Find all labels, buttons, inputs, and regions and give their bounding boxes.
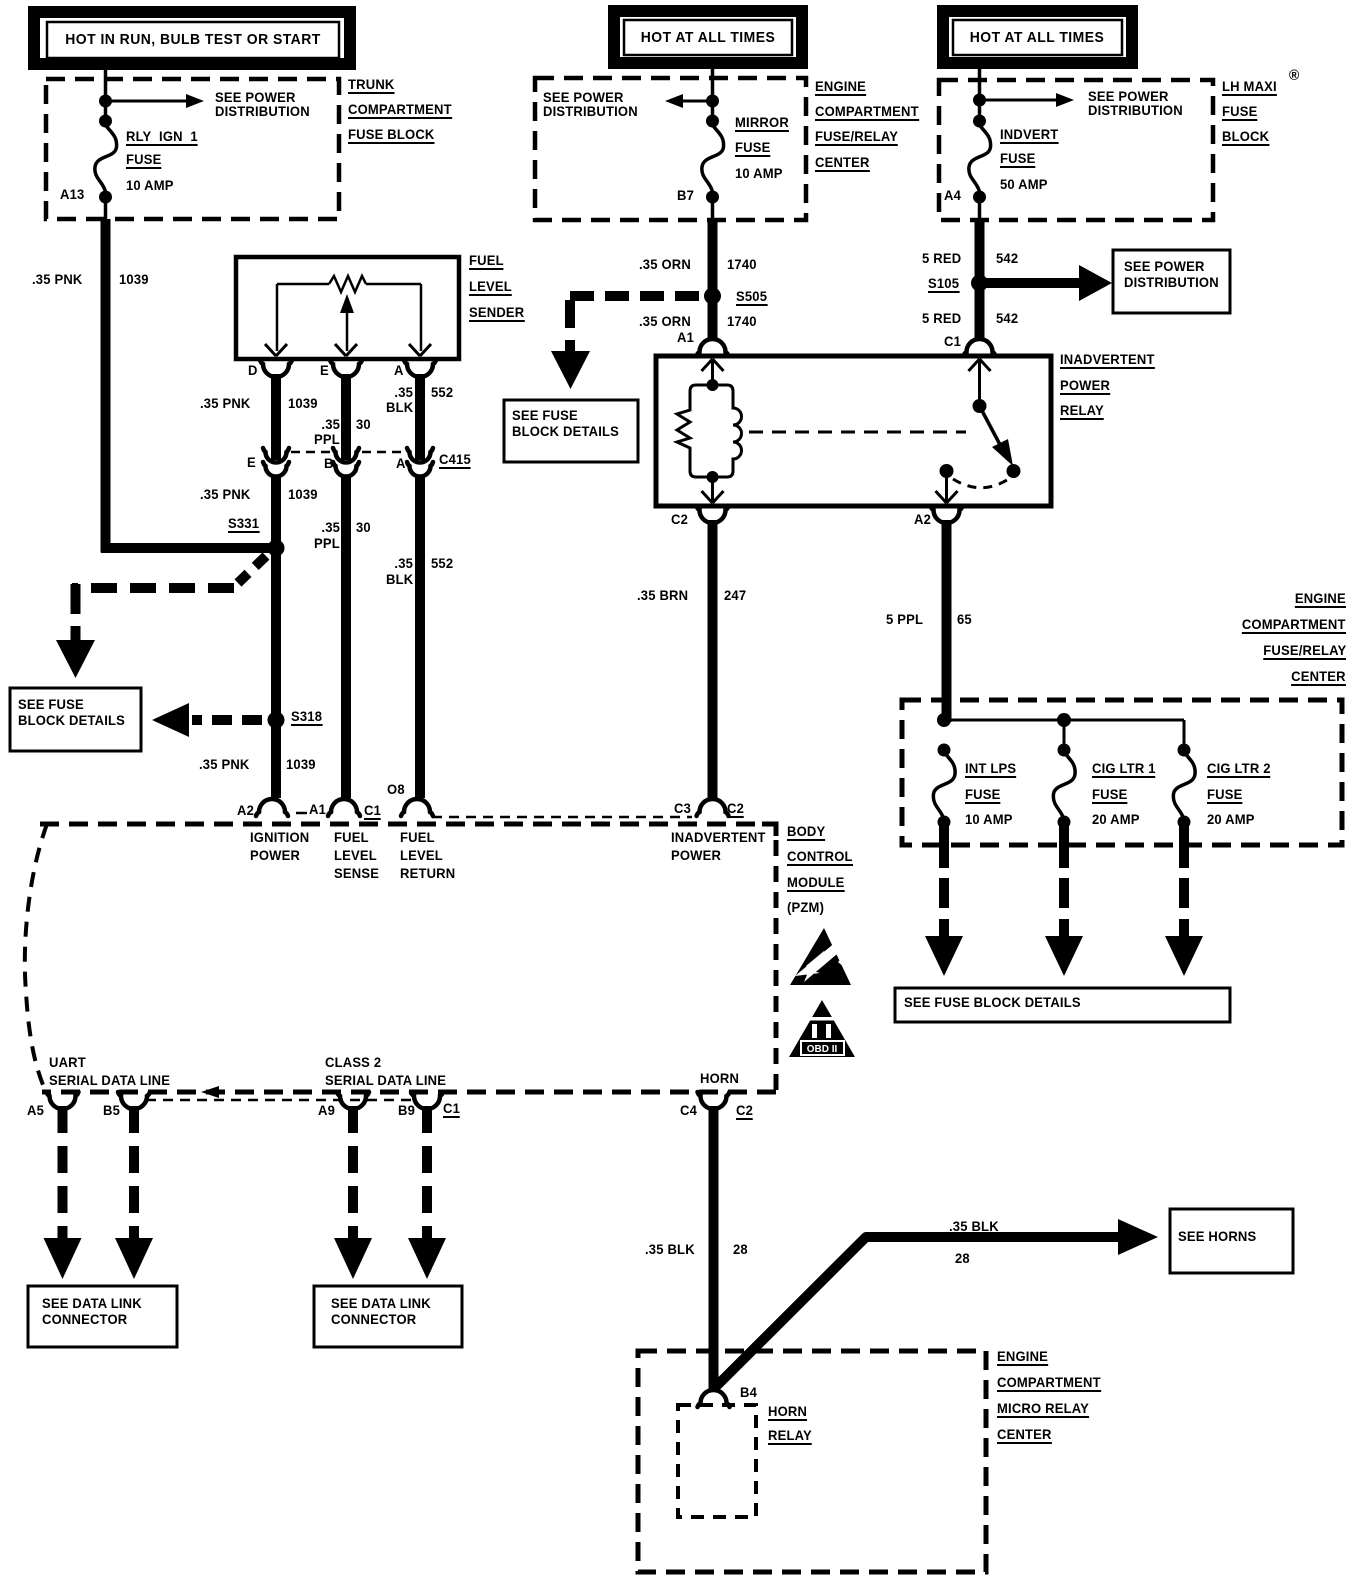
label .35 (blk upper) xyxy=(394,385,413,400)
relay coil feed wire xyxy=(711,359,714,385)
splice dot S318 xyxy=(268,712,285,729)
dashed wire from S318 to arrow xyxy=(192,715,262,725)
label RELAY (relay) xyxy=(1060,403,1104,420)
label UART xyxy=(49,1055,86,1070)
label BLK (blk upper) xyxy=(386,400,413,415)
label FUSE/RELAY (fusectr) xyxy=(1263,643,1346,660)
junction dot at see-power tap xyxy=(99,95,112,108)
box SEE HORNS xyxy=(1170,1209,1293,1273)
label .35 PNK (A13) xyxy=(32,272,83,287)
label DISTRIBUTION (right) xyxy=(1088,103,1183,118)
label 10 AMP (rly ign) xyxy=(126,178,174,193)
relay coil bottom junction dot xyxy=(707,471,719,483)
junction dot above fuse RLY IGN 1 xyxy=(99,115,112,128)
label 1039 (seg3) xyxy=(288,487,318,502)
wire B7 stub to box edge xyxy=(711,197,715,220)
label INADVERTENT (BCM) xyxy=(671,830,766,845)
label HORN (BCM) xyxy=(700,1071,739,1086)
BCM dashed border right edge xyxy=(774,840,779,1092)
wire feed from header to mirror fuse xyxy=(711,69,715,126)
label SEE POWER (left) xyxy=(215,90,296,105)
splice dot S331 xyxy=(268,540,285,557)
label LEVEL (sender) xyxy=(469,279,512,296)
label 20 AMP (cig2) xyxy=(1207,812,1255,827)
pin label A1 (relay) xyxy=(677,330,694,345)
label 5 PPL xyxy=(886,612,923,627)
label CENTER (mid) xyxy=(815,155,870,172)
label COMPARTMENT xyxy=(348,102,452,119)
dashed wire from S331 to fuse block details xyxy=(72,556,266,642)
label .35 BLK (vert) xyxy=(645,1242,695,1257)
BCM thin dash left of A1 xyxy=(296,812,307,815)
label .35 ORN (upper) xyxy=(639,257,691,272)
pin label A2 (BCM) xyxy=(237,803,254,818)
label FUSE (cig1) xyxy=(1092,787,1127,804)
relay switch output dot xyxy=(940,464,954,478)
label .35 PNK (seg2) xyxy=(200,396,251,411)
box text SEE HORNS xyxy=(1178,1229,1256,1244)
pin label E (sender) xyxy=(320,363,329,378)
box text CONNECTOR (r) xyxy=(331,1312,416,1327)
label ENGINE (micro) xyxy=(997,1349,1048,1366)
wire blk C415 to BCM O8 xyxy=(415,475,425,798)
engine compartment micro relay center dashed box xyxy=(638,1351,986,1572)
label ENGINE (fusectr) xyxy=(1295,591,1346,608)
label PPL (ppl lower) xyxy=(314,536,340,551)
label 50 AMP (indvert) xyxy=(1000,177,1048,192)
pin label B9 xyxy=(398,1103,415,1118)
header box HOT IN RUN, BULB TEST OR START xyxy=(34,12,350,64)
fuse CIG LTR 2 element xyxy=(1173,752,1195,820)
label .35 (blk lower) xyxy=(394,556,413,571)
pin label A4 xyxy=(944,188,961,203)
connector cup D xyxy=(260,360,292,377)
label .35 BRN xyxy=(637,588,688,603)
label .35 (ppl lower) xyxy=(321,520,340,535)
output wire and arrow from fuse 1 xyxy=(925,822,963,976)
arrow to SEE HORNS xyxy=(1118,1219,1158,1255)
relay coil with parallel resistor xyxy=(677,385,742,477)
label 20 AMP (cig1) xyxy=(1092,812,1140,827)
header text HOT AT ALL TIMES center xyxy=(641,30,776,45)
label TRUNK xyxy=(348,77,395,94)
wire ppl relay A2 to fuse center xyxy=(942,520,952,722)
connector cup C4 xyxy=(698,1092,730,1109)
label 552 (lower) xyxy=(431,556,453,571)
label 5 RED (upper) xyxy=(922,251,961,266)
label 10 AMP (int lps) xyxy=(965,812,1013,827)
wire S505 down to relay A1 xyxy=(708,296,718,340)
pin label B4 xyxy=(740,1385,757,1400)
sender left leg xyxy=(276,284,279,351)
connector C415 pin E pair xyxy=(263,374,289,477)
label 28 (horiz) xyxy=(955,1251,970,1266)
sender right leg xyxy=(420,284,423,351)
fuse CIG LTR 1 element xyxy=(1053,752,1075,820)
sender terminal arrow D xyxy=(265,344,287,356)
box text SEE FUSE (center) xyxy=(512,408,578,423)
connector cup A9 xyxy=(337,1092,369,1109)
pin label A (C415) xyxy=(396,456,406,471)
relay switch output leg xyxy=(945,471,948,503)
label MIRROR xyxy=(735,115,789,132)
label SEE POWER (mid) xyxy=(543,90,624,105)
BCM dashed border right corner xyxy=(762,824,776,836)
box text SEE FUSE (left) xyxy=(18,697,84,712)
connector label C2 (horn) xyxy=(736,1103,753,1120)
connector dome O8 at BCM xyxy=(401,799,433,816)
label (PZM) xyxy=(787,900,824,915)
box SEE DATA LINK CONNECTOR (left) xyxy=(28,1286,177,1347)
sender resistor element xyxy=(277,276,421,292)
label 30 (lower) xyxy=(356,520,371,535)
label 65 xyxy=(957,612,972,627)
label FUSE BLOCK xyxy=(348,127,434,144)
label 552 (upper) xyxy=(431,385,453,400)
splice label S318 xyxy=(291,709,322,726)
relay switch contact dot (NO) xyxy=(1007,464,1021,478)
relay switch pivot dot xyxy=(973,399,987,413)
OBD II symbol triangle xyxy=(789,1000,855,1057)
terminal dot A13 xyxy=(99,191,112,204)
fuse CIG LTR 2 bottom dot xyxy=(1178,816,1191,829)
relay switch common leg xyxy=(978,359,981,406)
arrow SEE POWER DISTRIBUTION (right block) xyxy=(980,93,1075,107)
relay pin C2 arrow xyxy=(702,491,724,503)
relay actuation dashed line xyxy=(749,431,966,434)
BCM dashed border top edge xyxy=(40,822,773,827)
label FUSE (rly ign) xyxy=(126,152,161,169)
label 1039 (seg4) xyxy=(286,757,316,772)
connector cup A5 xyxy=(47,1092,79,1109)
LH maxi fuse block dashed box xyxy=(939,80,1213,220)
header box HOT AT ALL TIMES (right) xyxy=(943,11,1132,63)
connector cup B9 xyxy=(411,1092,443,1109)
pin label A (sender) xyxy=(394,363,404,378)
thick arrow S105 to see power distribution xyxy=(986,265,1112,301)
relay switch blade xyxy=(980,406,1014,466)
box text SEE DATA LINK (r) xyxy=(331,1296,431,1311)
sender terminal arrow E xyxy=(335,344,357,356)
arrow SEE POWER DISTRIBUTION (left block) xyxy=(106,94,205,108)
box text DISTRIBUTION (rbox) xyxy=(1124,275,1219,290)
relay pin A2 arrow xyxy=(936,491,958,503)
splice label S331 xyxy=(228,516,259,533)
connector cup B5 xyxy=(118,1092,150,1109)
box SEE DATA LINK CONNECTOR (right) xyxy=(314,1286,462,1347)
box text BLOCK DETAILS (center) xyxy=(512,424,619,439)
junction dot above indvert fuse xyxy=(973,115,986,128)
label circuit 1039 (A13) xyxy=(119,272,149,287)
arrow down to see fuse block details (center) xyxy=(551,351,590,389)
BCM dashed border left curved edge xyxy=(25,824,47,1092)
ESD sensitive symbol triangle xyxy=(790,928,852,985)
bus stub to cig ltr 1 xyxy=(1063,720,1066,750)
connector dome A2 at BCM xyxy=(256,799,288,816)
label SENDER xyxy=(469,305,524,322)
output wire and arrow from fuse 3 xyxy=(1165,822,1203,976)
pin label C2 (relay) xyxy=(671,512,688,527)
engine compartment fuse/relay center dashed box xyxy=(535,78,806,220)
arrow down to see fuse block details (left) xyxy=(56,640,95,678)
label 5 RED (lower) xyxy=(922,311,961,326)
splice dot S505 xyxy=(704,288,721,305)
wire A13 down to S331 corner xyxy=(101,219,281,553)
connector cup A xyxy=(404,360,436,377)
connector C415 pin B pair xyxy=(333,374,359,477)
label .35 ORN (lower) xyxy=(639,314,691,329)
wire feed from header to fuse RLY IGN 1 xyxy=(104,70,108,126)
label MICRO RELAY xyxy=(997,1401,1089,1418)
label INADVERTENT (relay) xyxy=(1060,352,1155,369)
connector dome A1 at relay xyxy=(697,339,729,356)
label BLOCK (maxi) xyxy=(1222,129,1269,146)
box text BLOCK DETAILS (left) xyxy=(18,713,125,728)
pin label C1 (relay) xyxy=(944,334,961,349)
output wire and arrow from fuse 2 xyxy=(1045,822,1083,976)
wire pnk C415 to BCM A2 xyxy=(271,475,281,798)
label FUSE (indvert) xyxy=(1000,151,1035,168)
pin label O8 (BCM) xyxy=(387,782,405,797)
fuel level sender box xyxy=(236,257,459,359)
pin label C3 (BCM) xyxy=(674,801,691,816)
trunk compartment fuse block dashed box xyxy=(46,79,339,219)
bus junction dot (int lps) xyxy=(937,713,951,727)
label DISTRIBUTION (mid) xyxy=(543,104,638,119)
box text SEE POWER (rbox) xyxy=(1124,259,1205,274)
label 542 (lower) xyxy=(996,311,1018,326)
pin label E (C415) xyxy=(247,455,256,470)
box SEE POWER DISTRIBUTION (right) xyxy=(1113,250,1230,313)
label .35 BLK (horiz) xyxy=(949,1219,999,1234)
junction dot at mirror see-power tap xyxy=(706,95,719,108)
label CENTER (fusectr) xyxy=(1291,669,1346,686)
label COMPARTMENT (mid) xyxy=(815,104,919,121)
label FUSE (maxi) xyxy=(1222,104,1257,121)
terminal dot A4 xyxy=(973,191,986,204)
box text SEE FUSE BLOCK DETAILS xyxy=(904,995,1081,1010)
connector cup A2 below relay xyxy=(931,506,963,523)
junction dot at indvert see-power tap xyxy=(973,94,986,107)
label RLY IGN 1 xyxy=(126,129,198,146)
connector label C2 (BCM top) xyxy=(727,801,744,818)
label ENGINE (mid) xyxy=(815,79,866,96)
label FUSE (mirror) xyxy=(735,140,770,157)
label COMPARTMENT (micro) xyxy=(997,1375,1101,1392)
arrow on BCM bottom edge xyxy=(201,1086,219,1098)
fuse INT LPS bottom dot xyxy=(938,816,951,829)
wire A4 stub to box edge xyxy=(978,197,982,220)
label CONTROL xyxy=(787,849,853,866)
relay pin A1 arrow xyxy=(702,359,724,371)
header text HOT AT ALL TIMES right xyxy=(970,30,1105,45)
label POWER (relay) xyxy=(1060,378,1110,395)
BCM thin dashed connector line (O8 to C3) xyxy=(432,816,692,819)
inadvertent power relay box xyxy=(656,356,1051,506)
bus stub to cig ltr 2 xyxy=(1183,720,1186,750)
wire ppl C415 to BCM A1 xyxy=(341,475,351,798)
wire A13 stub to box edge xyxy=(104,197,108,219)
label SENSE xyxy=(334,866,379,881)
horn relay inner dashed box xyxy=(678,1405,756,1517)
wire B7 down to S505 xyxy=(708,220,718,298)
pin label D xyxy=(248,363,258,378)
wire blk C4 down to horn relay xyxy=(709,1106,719,1389)
label 1740 (lower) xyxy=(727,314,757,329)
box SEE FUSE BLOCK DETAILS (center) xyxy=(504,400,638,462)
label POWER (ign) xyxy=(250,848,300,863)
splice dot S105 xyxy=(971,275,988,292)
fuse CIG LTR 1 bottom dot xyxy=(1058,816,1071,829)
thin dashed serial link line xyxy=(146,1099,416,1102)
header text HOT IN RUN xyxy=(65,32,320,47)
label 1039 (seg2) xyxy=(288,396,318,411)
wire blk branch to see horns xyxy=(714,1237,1121,1389)
connector label C415 xyxy=(439,452,471,469)
connector C415 pin A pair xyxy=(407,374,433,477)
label 10 AMP (mirror) xyxy=(735,166,783,181)
label PPL (ppl upper) xyxy=(314,432,340,447)
fuse MIRROR element xyxy=(702,125,724,192)
fuse CIG LTR 2 top dot xyxy=(1178,744,1191,757)
label SERIAL DATA LINE (uart) xyxy=(49,1073,170,1088)
label CLASS 2 xyxy=(325,1055,381,1070)
pin label B5 xyxy=(103,1103,120,1118)
connector label C1 (class2) xyxy=(443,1101,460,1118)
label .35 (ppl upper) xyxy=(321,417,340,432)
wire E ppl to C415 xyxy=(341,374,351,452)
label LH MAXI xyxy=(1222,79,1277,96)
label BODY xyxy=(787,824,825,841)
label CENTER (micro) xyxy=(997,1427,1052,1444)
junction dot above mirror fuse xyxy=(706,115,719,128)
sender wiper arrow xyxy=(340,294,354,351)
connector cup E xyxy=(330,360,362,377)
connector cup C2 below relay xyxy=(697,506,729,523)
pin label A9 xyxy=(318,1103,335,1118)
arrow left to see fuse block details (S318) xyxy=(152,703,189,737)
label FUSE (cig2) xyxy=(1207,787,1242,804)
pin label A5 xyxy=(27,1103,44,1118)
wire S105 down to relay C1 xyxy=(975,283,985,340)
box SEE FUSE BLOCK DETAILS (left) xyxy=(10,688,141,751)
label CIG LTR 1 xyxy=(1092,761,1156,778)
label 30 (upper) xyxy=(356,417,371,432)
wire feed from header to indvert fuse xyxy=(978,69,982,126)
label RELAY (horn) xyxy=(768,1428,812,1445)
label INDVERT xyxy=(1000,127,1058,144)
relay switch throw arc xyxy=(953,479,1007,488)
wire A4 down to S105 xyxy=(975,220,985,285)
sender terminal arrow A xyxy=(409,344,431,356)
dashed wire B9 to data link connector xyxy=(408,1106,446,1279)
label BLK (blk lower) xyxy=(386,572,413,587)
fuse center bus wire xyxy=(944,719,1184,722)
relay pin C1 arrow xyxy=(969,359,991,371)
pin label B (C415) xyxy=(324,456,334,471)
label SEE POWER (right) xyxy=(1088,89,1169,104)
fuse INT LPS element xyxy=(933,752,955,820)
label SERIAL DATA LINE (class2) xyxy=(325,1073,446,1088)
label FUSE/RELAY (mid) xyxy=(815,129,898,146)
label INT LPS xyxy=(965,761,1016,778)
wire brn relay C2 to BCM C3 xyxy=(708,520,718,798)
header box HOT AT ALL TIMES (center) xyxy=(614,11,802,63)
box SEE FUSE BLOCK DETAILS (wide) xyxy=(895,988,1230,1022)
label .35 PNK (seg3) xyxy=(200,487,251,502)
connector label C1 (BCM) xyxy=(364,803,381,820)
arrow SEE POWER DISTRIBUTION (center, points left) xyxy=(665,94,713,108)
wire A blk to C415 xyxy=(415,374,425,452)
label POWER (BCM) xyxy=(671,848,721,863)
box text SEE DATA LINK (l) xyxy=(42,1296,142,1311)
label RETURN xyxy=(400,866,455,881)
label 28 (vert) xyxy=(733,1242,748,1257)
connector dome C1 at relay xyxy=(964,339,996,356)
label COMPARTMENT (fusectr) xyxy=(1242,617,1346,634)
splice label S505 xyxy=(736,289,767,306)
relay coil top junction dot xyxy=(707,379,719,391)
label LEVEL (sense) xyxy=(334,848,377,863)
relay coil to C2 wire xyxy=(711,477,714,503)
wire D pnk to C415 xyxy=(271,374,281,452)
dashed wire B5 to data link connector xyxy=(115,1106,153,1279)
splice label S105 xyxy=(928,276,959,293)
label MODULE xyxy=(787,875,845,892)
label 1740 (upper) xyxy=(727,257,757,272)
fuse CIG LTR 1 top dot xyxy=(1058,744,1071,757)
label 542 (upper) xyxy=(996,251,1018,266)
label FUEL (sender) xyxy=(469,253,504,270)
bus junction dot (cig ltr 1) xyxy=(1057,713,1071,727)
label DISTRIBUTION (left) xyxy=(215,104,310,119)
svg-text:OBD II: OBD II xyxy=(807,1044,838,1055)
label .35 PNK (seg4) xyxy=(199,757,250,772)
label IGNITION xyxy=(250,830,309,845)
fuse RLY IGN 1 element xyxy=(95,125,117,192)
label HORN (relay) xyxy=(768,1404,807,1421)
dashed link line of connector C415 xyxy=(291,451,404,454)
fuse INDVERT element xyxy=(969,125,991,192)
fuse INT LPS top dot xyxy=(938,744,951,757)
dashed wire A5 to data link connector xyxy=(44,1106,82,1279)
box text CONNECTOR (l) xyxy=(42,1312,127,1327)
connector dome C3 at BCM xyxy=(697,799,729,816)
pin label B7 xyxy=(677,188,694,203)
label FUEL (return) xyxy=(400,830,435,845)
engine compartment fuse/relay center dashed box (lower) xyxy=(902,700,1342,845)
pin label A2 (relay) xyxy=(914,512,931,527)
dashed wire A9 to data link connector xyxy=(334,1106,372,1279)
pin label A1 (BCM) xyxy=(309,802,326,817)
BCM dashed border bottom edge xyxy=(42,1090,776,1095)
label LEVEL (return) xyxy=(400,848,443,863)
label CIG LTR 2 xyxy=(1207,761,1271,778)
dashed wire S505 to fuse block details xyxy=(570,296,699,352)
label registered mark xyxy=(1289,68,1299,83)
label 247 xyxy=(724,588,746,603)
label FUSE (int lps) xyxy=(965,787,1000,804)
connector dome B4 at horn relay xyxy=(698,1390,730,1407)
terminal dot B7 xyxy=(706,191,719,204)
connector dome A1 at BCM xyxy=(328,799,360,816)
pin label C4 xyxy=(680,1103,697,1118)
label FUEL (sense) xyxy=(334,830,369,845)
pin label A13 xyxy=(60,187,84,202)
